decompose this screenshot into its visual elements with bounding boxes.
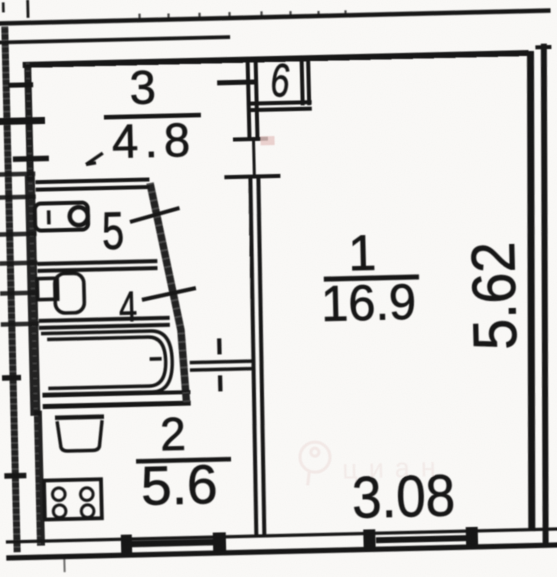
room 4/bath divider double bbox=[39, 318, 170, 328]
watermark pin logo bbox=[300, 442, 331, 486]
apartment left wall (grainy) bbox=[27, 63, 41, 546]
toilet room 4 bbox=[37, 273, 84, 314]
top building line A bbox=[0, 11, 551, 24]
room1 right wall outer bbox=[534, 44, 556, 546]
closet hall stub bbox=[217, 80, 254, 86]
room 5/4 divider double bbox=[37, 261, 157, 271]
building left edge wall (grainy) bbox=[5, 26, 17, 552]
staircase steps bbox=[0, 174, 39, 325]
door dash vertical bbox=[219, 338, 220, 391]
ticks on line A bbox=[139, 9, 345, 20]
kitchen sink bbox=[55, 417, 105, 452]
door tick 1 bbox=[233, 137, 268, 142]
left neighbour stub 1 bbox=[0, 120, 45, 121]
hall wall single (door opening) bbox=[252, 141, 256, 177]
fraction line room 3 bbox=[104, 115, 201, 117]
bottom small tick bbox=[63, 559, 65, 572]
connector stub top-left bbox=[8, 82, 33, 88]
bath door passage lines bbox=[190, 361, 254, 370]
washbasin room 5 bbox=[35, 202, 89, 230]
door slash room4 bbox=[142, 288, 196, 300]
room window bbox=[369, 527, 472, 549]
fraction line room 2 bbox=[136, 459, 231, 461]
apartment top wall bbox=[23, 53, 529, 65]
bathtub bbox=[41, 331, 173, 395]
pen arrow mark bbox=[86, 153, 103, 164]
left neighbour stub 5 bbox=[4, 473, 26, 479]
door tick 2 bbox=[224, 176, 280, 177]
room1 right wall inner bbox=[520, 51, 541, 531]
kitchen window bbox=[126, 532, 219, 554]
hall/room1 wall upper double bbox=[248, 59, 258, 140]
bath bottom wall double bbox=[42, 392, 190, 406]
room 5 top wall double bbox=[35, 179, 149, 189]
fraction line room 1 bbox=[324, 277, 419, 279]
bottom band outer line bbox=[6, 545, 557, 558]
closet 6 box bbox=[250, 60, 312, 110]
slanted wall bbox=[150, 182, 187, 406]
left neighbour stub 4 bbox=[2, 375, 21, 381]
pink scan artifact bbox=[260, 136, 274, 145]
left neighbour stub 2 bbox=[13, 156, 49, 162]
hall/room1 wall lower double bbox=[248, 176, 267, 537]
tick top-left corner 1 bbox=[2, 2, 5, 12]
door slash room5 bbox=[130, 208, 180, 222]
tick top-left corner 2 bbox=[26, 0, 29, 18]
top wall stub right of outer wall bbox=[535, 45, 551, 49]
kitchen stove bbox=[44, 479, 102, 519]
building line B (left part) bbox=[0, 37, 230, 43]
bottom band inner line bbox=[6, 529, 557, 542]
